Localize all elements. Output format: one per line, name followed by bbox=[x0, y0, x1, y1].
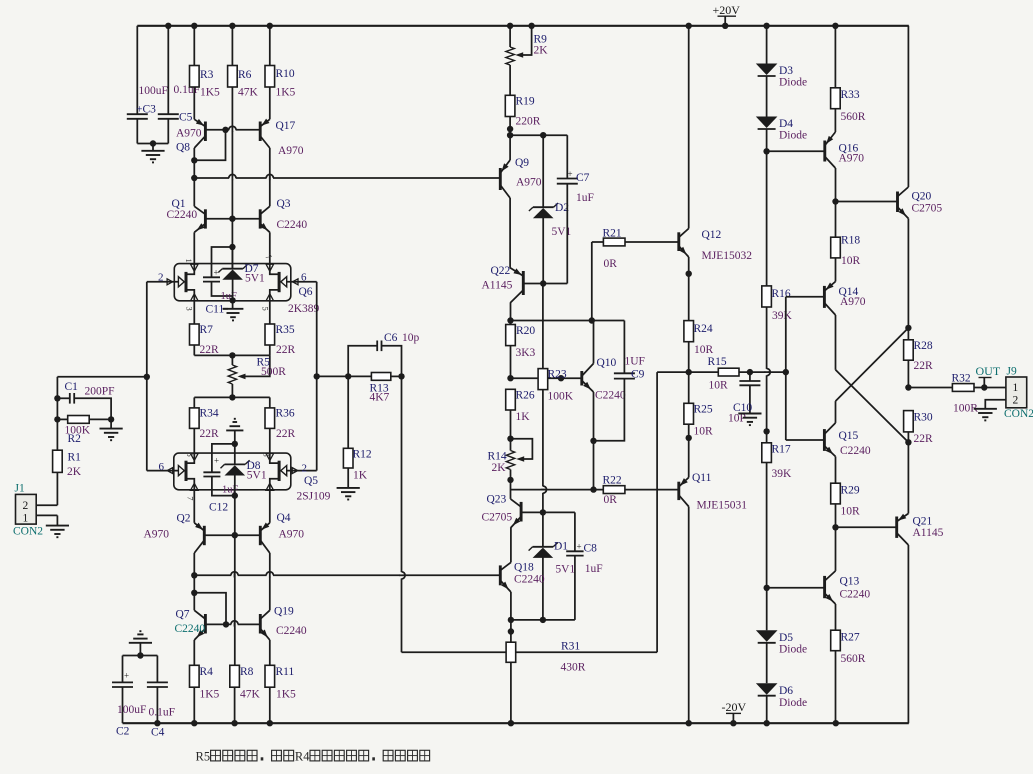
resistor R4 bbox=[190, 640, 220, 723]
resistor R10 bbox=[265, 26, 296, 120]
svg-text:Q11: Q11 bbox=[692, 472, 712, 484]
svg-text:D5: D5 bbox=[779, 632, 793, 644]
svg-text:J1: J1 bbox=[15, 483, 25, 495]
label Q5 bbox=[297, 475, 331, 503]
svg-text:A1145: A1145 bbox=[913, 527, 944, 539]
svg-text:10R: 10R bbox=[694, 344, 714, 356]
resistor R18 bbox=[831, 235, 861, 282]
svg-text:R21: R21 bbox=[603, 228, 622, 240]
svg-text:R20: R20 bbox=[516, 325, 535, 337]
svg-text:C2705: C2705 bbox=[482, 512, 513, 524]
svg-text:D1: D1 bbox=[554, 541, 568, 553]
svg-text:A970: A970 bbox=[839, 153, 865, 165]
zener diode D7 bbox=[218, 247, 265, 304]
ground J1 pin1 bbox=[46, 515, 69, 537]
diode D4 bbox=[756, 77, 807, 142]
svg-text:R23: R23 bbox=[548, 369, 567, 381]
svg-text:10p: 10p bbox=[402, 332, 420, 344]
transistor Q14 bbox=[824, 282, 865, 316]
svg-text:+: + bbox=[214, 268, 219, 278]
ground C10 bbox=[738, 414, 761, 426]
svg-text:1uF: 1uF bbox=[576, 192, 594, 204]
svg-text:22R: 22R bbox=[200, 344, 220, 356]
ground near C3/C5 bbox=[141, 144, 164, 163]
ground above C2/C4 (inverted) bbox=[123, 631, 158, 682]
wire Q14 base link bbox=[786, 297, 825, 440]
wire R20/R26 node to Q10 base bbox=[507, 375, 582, 381]
node OUT junction bbox=[905, 384, 952, 390]
resistor R23 bbox=[538, 284, 574, 513]
resistor R33 bbox=[831, 26, 866, 132]
svg-text:R33: R33 bbox=[841, 89, 860, 101]
transistor Q16 bbox=[825, 132, 865, 168]
zener diode D8 bbox=[221, 444, 267, 499]
svg-text:22R: 22R bbox=[914, 360, 934, 372]
wire Q7-Q19 base link bbox=[205, 621, 260, 627]
resistor R21 bbox=[592, 228, 679, 321]
resistor R11 bbox=[265, 640, 296, 723]
wire Q7 collector-base loop bbox=[194, 593, 229, 628]
svg-text:C11: C11 bbox=[206, 304, 225, 316]
resistor R12 bbox=[343, 376, 372, 488]
transistor Q10 bbox=[582, 321, 626, 444]
node below R19 bbox=[507, 132, 567, 138]
svg-text:R34: R34 bbox=[200, 408, 219, 420]
svg-text:430R: 430R bbox=[561, 662, 586, 674]
svg-text:A970: A970 bbox=[279, 529, 305, 541]
wire Q13 base link bbox=[764, 585, 825, 591]
svg-text:+: + bbox=[577, 542, 582, 552]
svg-text:Q21: Q21 bbox=[913, 516, 933, 528]
wire Q3 emitter to pin bbox=[269, 232, 271, 263]
wire Q2 collector column bbox=[191, 553, 197, 610]
svg-text:3: 3 bbox=[262, 453, 272, 457]
svg-text:1: 1 bbox=[23, 513, 29, 525]
svg-text:MJE15032: MJE15032 bbox=[702, 250, 753, 262]
connector J9 bbox=[985, 366, 1033, 421]
wire Q2-Q4 base link bbox=[204, 534, 260, 536]
svg-text:R25: R25 bbox=[694, 404, 713, 416]
wire inverting-input column bbox=[144, 282, 150, 471]
capacitor C5 bbox=[158, 26, 200, 144]
transistor Q3 bbox=[260, 148, 308, 232]
wire D4 to Q16 base bbox=[763, 130, 824, 155]
capacitor C12 bbox=[203, 444, 238, 514]
svg-text:3: 3 bbox=[185, 307, 195, 311]
node R7-R35 junction bbox=[194, 352, 269, 358]
svg-text:C1: C1 bbox=[65, 381, 79, 393]
wire D7 bias branch bbox=[212, 247, 233, 277]
svg-text:C2240: C2240 bbox=[276, 625, 307, 637]
svg-text:Q3: Q3 bbox=[277, 198, 291, 210]
transistor Q15 bbox=[824, 423, 871, 457]
wire Q18 emitter node bbox=[508, 592, 514, 642]
svg-text:5V1: 5V1 bbox=[247, 470, 267, 482]
svg-text:R14: R14 bbox=[488, 451, 507, 463]
svg-text:R24: R24 bbox=[694, 323, 713, 335]
svg-text:Q20: Q20 bbox=[912, 191, 932, 203]
svg-text:500R: 500R bbox=[261, 366, 286, 378]
svg-text:2: 2 bbox=[302, 463, 308, 475]
JFET Q5 left half bbox=[147, 453, 198, 490]
svg-text:MJE15031: MJE15031 bbox=[697, 500, 748, 512]
wire Q14 collector cross bbox=[836, 315, 909, 442]
svg-text:C12: C12 bbox=[209, 502, 228, 514]
wire Q22 collector node bbox=[507, 303, 624, 324]
svg-text:Q9: Q9 bbox=[515, 157, 529, 169]
resistor R29 bbox=[831, 483, 860, 530]
svg-text:A1145: A1145 bbox=[482, 280, 513, 292]
svg-text:22R: 22R bbox=[914, 433, 934, 445]
wire Q15 base link bbox=[786, 439, 825, 441]
transistor Q1 bbox=[167, 178, 206, 232]
ground above C12 (inverted) bbox=[226, 419, 243, 447]
transistor Q2 bbox=[144, 490, 205, 553]
wire R8 bias column bbox=[234, 535, 236, 665]
wire Q15 collector cross bbox=[836, 328, 909, 423]
capacitor C7 bbox=[557, 135, 594, 283]
ground R12 bbox=[337, 488, 360, 500]
transistor Q21 bbox=[897, 514, 944, 546]
svg-text:C4: C4 bbox=[151, 727, 165, 739]
label Q6 bbox=[288, 286, 320, 315]
wire feedback right column bbox=[656, 372, 658, 652]
JFET Q6 right half bbox=[266, 264, 317, 301]
transistor Q19 bbox=[260, 606, 307, 641]
annotation note bbox=[196, 750, 430, 764]
svg-text:R31: R31 bbox=[561, 641, 580, 653]
svg-text:1uF: 1uF bbox=[585, 563, 603, 575]
svg-text:C8: C8 bbox=[584, 543, 598, 555]
wire Q21 collector column bbox=[907, 545, 909, 723]
wire feedback down-column bbox=[399, 376, 405, 652]
wire D6 to rail bbox=[766, 696, 768, 723]
resistor R30 bbox=[904, 411, 933, 446]
svg-text:D4: D4 bbox=[779, 118, 793, 130]
svg-text:1: 1 bbox=[184, 259, 194, 263]
wire Q16 collector node bbox=[832, 168, 897, 237]
transistor Q20 bbox=[898, 26, 943, 219]
ground J9 pin2 bbox=[974, 409, 997, 421]
svg-text:R10: R10 bbox=[276, 68, 295, 80]
svg-text:R36: R36 bbox=[276, 408, 295, 420]
wire Q23 base net bbox=[521, 509, 575, 515]
wire input node column bbox=[54, 377, 147, 423]
svg-text:4K7: 4K7 bbox=[370, 392, 390, 404]
wire R30 to Q21 emitter bbox=[907, 442, 909, 513]
capacitor C3 bbox=[127, 26, 169, 147]
svg-text:22R: 22R bbox=[276, 344, 296, 356]
wire mirror node to Q9 base bbox=[194, 174, 500, 180]
resistor R32 bbox=[952, 373, 1006, 415]
svg-text:+C3: +C3 bbox=[136, 104, 156, 116]
resistor R28 bbox=[904, 328, 933, 388]
zener diode D2 bbox=[529, 135, 572, 283]
resistor R25 bbox=[684, 372, 713, 477]
svg-text:R1: R1 bbox=[68, 452, 82, 464]
svg-text:1K5: 1K5 bbox=[276, 689, 296, 701]
svg-text:R4: R4 bbox=[295, 750, 310, 764]
JFET Q6 left half bbox=[147, 264, 198, 301]
connector J1 bbox=[13, 483, 57, 538]
wire feedback bottom run bbox=[402, 651, 658, 653]
wire Q20 emitter column bbox=[905, 219, 911, 332]
transistor Q22 bbox=[482, 198, 524, 303]
svg-text:5V1: 5V1 bbox=[552, 226, 572, 238]
resistor R13 bbox=[317, 373, 405, 404]
svg-text:2K: 2K bbox=[67, 466, 82, 478]
svg-text:2K: 2K bbox=[492, 462, 507, 474]
transistor Q11 bbox=[679, 472, 747, 512]
resistor R27 bbox=[831, 604, 866, 723]
capacitor C1 bbox=[57, 381, 114, 419]
svg-text:Q10: Q10 bbox=[597, 357, 617, 369]
resistor R7 bbox=[190, 301, 220, 356]
transistor Q18 bbox=[500, 562, 545, 593]
svg-text:R26: R26 bbox=[516, 390, 535, 402]
svg-text:C5: C5 bbox=[179, 112, 193, 124]
dual-JFET U-block Q6 2K389 bbox=[174, 264, 290, 301]
node R34-R36 junction bbox=[194, 394, 269, 400]
capacitor C11 bbox=[203, 268, 237, 316]
svg-text:10R: 10R bbox=[694, 426, 714, 438]
wire VAS input (to Q18 base) bbox=[194, 572, 500, 578]
svg-text:0R: 0R bbox=[604, 494, 618, 506]
ground R2/C1 bbox=[100, 419, 123, 440]
transistor Q12 bbox=[679, 26, 752, 262]
svg-text:Q4: Q4 bbox=[277, 512, 291, 524]
resistor R26 bbox=[506, 389, 535, 438]
resistor R1 bbox=[53, 419, 82, 505]
svg-text:1K: 1K bbox=[353, 469, 368, 481]
svg-text:R6: R6 bbox=[238, 69, 252, 81]
svg-text:A970: A970 bbox=[278, 145, 304, 157]
pin numbers block1 bbox=[184, 252, 274, 311]
potentiometer R5 500R bbox=[228, 355, 286, 397]
svg-text:R7: R7 bbox=[200, 324, 214, 336]
svg-text:A970: A970 bbox=[516, 177, 542, 189]
svg-text:560R: 560R bbox=[841, 653, 866, 665]
svg-text:—: — bbox=[258, 484, 268, 494]
wire Q1 emitter to pin bbox=[193, 232, 195, 263]
svg-text:Q17: Q17 bbox=[276, 120, 296, 132]
wire Q1-Q3 base link bbox=[205, 218, 260, 220]
svg-text:A970: A970 bbox=[176, 128, 202, 140]
svg-text:C2240: C2240 bbox=[514, 574, 545, 586]
svg-text:Diode: Diode bbox=[779, 130, 807, 142]
zener diode D1 bbox=[529, 512, 576, 620]
svg-text:R5: R5 bbox=[196, 750, 211, 764]
svg-text:2K389: 2K389 bbox=[288, 303, 320, 315]
wire Q4 collector column bbox=[269, 553, 271, 610]
capacitor C10 bbox=[728, 372, 760, 424]
pin numbers block2 bbox=[185, 453, 272, 501]
svg-text:Q18: Q18 bbox=[514, 562, 534, 574]
svg-text:R2: R2 bbox=[68, 433, 82, 445]
svg-text:Q8: Q8 bbox=[176, 142, 190, 154]
svg-text:100uF: 100uF bbox=[139, 85, 168, 97]
resistor R31 bbox=[506, 641, 586, 724]
svg-text:R35: R35 bbox=[276, 324, 295, 336]
svg-text:2: 2 bbox=[1013, 395, 1019, 407]
potentiometer R14 2K bbox=[488, 436, 533, 484]
wire R22 net bbox=[511, 489, 679, 491]
resistor R20 bbox=[506, 321, 536, 379]
wire feedback column (gates) bbox=[314, 282, 320, 471]
svg-text:2: 2 bbox=[158, 272, 164, 284]
svg-text:Diode: Diode bbox=[779, 697, 807, 709]
svg-text:0.1uF: 0.1uF bbox=[149, 707, 176, 719]
svg-text:C2240: C2240 bbox=[175, 623, 206, 635]
svg-text:Q2: Q2 bbox=[177, 513, 191, 525]
wire Q10 emitter column bbox=[590, 441, 596, 493]
wire -20V bottom rail bbox=[123, 720, 909, 726]
svg-text:2: 2 bbox=[23, 500, 29, 512]
resistor R36 bbox=[265, 397, 296, 453]
potentiometer R9 2K bbox=[506, 26, 548, 96]
ground below C11 bbox=[223, 300, 244, 320]
resistor R2 bbox=[57, 416, 114, 446]
JFET Q5 right half bbox=[266, 453, 317, 490]
svg-text:1K: 1K bbox=[516, 411, 531, 423]
svg-text:22R: 22R bbox=[200, 428, 220, 440]
resistor R19 bbox=[505, 95, 540, 135]
capacitor C6 bbox=[348, 332, 419, 377]
svg-text:C2705: C2705 bbox=[912, 203, 943, 215]
resistor R8 bbox=[230, 665, 261, 723]
svg-text:R19: R19 bbox=[516, 96, 535, 108]
wire Q8-Q17 base link bbox=[205, 126, 260, 133]
transistor Q9 bbox=[500, 135, 542, 198]
wire Q12 emitter column bbox=[686, 257, 692, 321]
transistor Q17 bbox=[260, 119, 304, 157]
svg-text:R29: R29 bbox=[841, 485, 860, 497]
transistor Q23 bbox=[482, 480, 522, 528]
svg-text:6: 6 bbox=[159, 461, 165, 473]
svg-text:CON2: CON2 bbox=[1004, 408, 1033, 420]
svg-text:Q23: Q23 bbox=[487, 494, 507, 506]
wire +20V top rail bbox=[137, 23, 909, 29]
svg-text:6: 6 bbox=[301, 272, 307, 284]
svg-text:100K: 100K bbox=[548, 391, 574, 403]
svg-text:5V1: 5V1 bbox=[245, 273, 265, 285]
svg-text:OUT: OUT bbox=[976, 364, 1001, 378]
resistor R15 bbox=[708, 356, 790, 392]
svg-text:47K: 47K bbox=[238, 87, 259, 99]
svg-text:C7: C7 bbox=[576, 172, 590, 184]
svg-text:+: + bbox=[214, 456, 219, 466]
svg-text:R11: R11 bbox=[276, 666, 295, 678]
transistor Q7 bbox=[175, 609, 206, 641]
svg-text:220R: 220R bbox=[516, 116, 541, 128]
svg-text:-20V: -20V bbox=[722, 700, 747, 714]
svg-text:47K: 47K bbox=[240, 689, 261, 701]
net label OUT bbox=[976, 364, 1001, 388]
svg-text:39K: 39K bbox=[772, 468, 793, 480]
svg-text:10R: 10R bbox=[841, 506, 861, 518]
svg-text:0R: 0R bbox=[604, 258, 618, 270]
wire Q15 emitter to R29 bbox=[835, 457, 837, 484]
diode D6 bbox=[756, 643, 807, 709]
svg-text:A970: A970 bbox=[144, 529, 170, 541]
svg-text:J9: J9 bbox=[1007, 366, 1017, 378]
svg-text:Q13: Q13 bbox=[840, 576, 860, 588]
svg-text:22R: 22R bbox=[276, 428, 296, 440]
power +20V bbox=[713, 3, 741, 26]
wire Q8 collector-base loop bbox=[191, 130, 225, 164]
svg-text:Q12: Q12 bbox=[702, 229, 722, 241]
wire R6 bias column bbox=[229, 87, 235, 269]
svg-text:Diode: Diode bbox=[779, 77, 807, 89]
svg-text:Q19: Q19 bbox=[274, 606, 294, 618]
svg-text:1K5: 1K5 bbox=[276, 87, 296, 99]
svg-text:R22: R22 bbox=[603, 475, 622, 487]
wire D8 node to Q2/Q4 bases bbox=[232, 496, 238, 539]
wire Q8 collector column bbox=[191, 148, 197, 181]
svg-text:R17: R17 bbox=[772, 444, 791, 456]
resistor R16 bbox=[762, 151, 793, 434]
svg-text:R32: R32 bbox=[952, 373, 971, 385]
svg-text:R18: R18 bbox=[841, 235, 860, 247]
svg-text:C2240: C2240 bbox=[277, 219, 308, 231]
svg-text:R8: R8 bbox=[240, 666, 254, 678]
dual-JFET U-block Q5 2SJ109 bbox=[174, 453, 291, 490]
wire Q21 base link bbox=[836, 526, 897, 528]
svg-text:3K3: 3K3 bbox=[516, 347, 536, 359]
resistor R6 bbox=[228, 26, 259, 99]
power -20V bbox=[722, 700, 747, 723]
svg-text:R4: R4 bbox=[200, 666, 214, 678]
svg-text:R12: R12 bbox=[353, 449, 372, 461]
svg-text:2K: 2K bbox=[534, 45, 549, 57]
svg-text:A970: A970 bbox=[840, 296, 866, 308]
svg-text:C2240: C2240 bbox=[840, 445, 871, 457]
svg-text:Q7: Q7 bbox=[176, 609, 190, 621]
svg-text:C9: C9 bbox=[631, 369, 645, 381]
svg-text:R27: R27 bbox=[841, 632, 860, 644]
svg-text:CON2: CON2 bbox=[13, 526, 43, 538]
svg-text:39K: 39K bbox=[772, 310, 793, 322]
wire Q22 base / D2 anode node bbox=[523, 280, 567, 286]
svg-text:C2240: C2240 bbox=[840, 589, 871, 601]
svg-text:10R: 10R bbox=[841, 255, 861, 267]
svg-text:1: 1 bbox=[1013, 382, 1019, 394]
resistor R24 bbox=[684, 321, 714, 373]
svg-text:C2240: C2240 bbox=[167, 209, 198, 221]
transistor Q8 bbox=[176, 119, 205, 154]
wire Q11 collector column bbox=[688, 507, 690, 724]
svg-text:R3: R3 bbox=[200, 69, 214, 81]
wire D1/C8 return bbox=[511, 617, 575, 623]
transistor Q13 bbox=[825, 527, 871, 604]
resistor R17 bbox=[762, 431, 792, 587]
capacitor C8 bbox=[566, 512, 603, 620]
svg-text:Q15: Q15 bbox=[839, 430, 859, 442]
svg-text:200PF: 200PF bbox=[85, 386, 115, 398]
capacitor C9 bbox=[594, 321, 645, 441]
svg-text:1UF: 1UF bbox=[625, 356, 645, 368]
resistor R3 bbox=[190, 26, 221, 120]
svg-text:+: + bbox=[124, 671, 129, 681]
svg-text:560R: 560R bbox=[841, 111, 866, 123]
svg-text:D6: D6 bbox=[779, 685, 793, 697]
svg-text:Diode: Diode bbox=[779, 644, 807, 656]
svg-text:C6: C6 bbox=[384, 332, 398, 344]
svg-text:D3: D3 bbox=[779, 65, 793, 77]
svg-text:10R: 10R bbox=[709, 380, 729, 392]
svg-text:Q6: Q6 bbox=[299, 286, 313, 298]
svg-text:R16: R16 bbox=[772, 288, 791, 300]
